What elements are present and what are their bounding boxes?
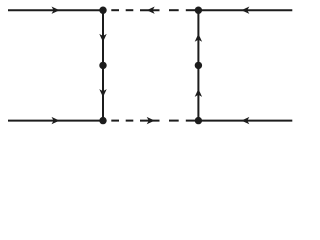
arrow bottom-left pointing right — [52, 117, 60, 124]
wire bottom-left fermion line — [8, 120, 103, 122]
wire right vertical fermion line upper segment — [197, 10, 199, 65]
arrow top-right pointing left — [241, 7, 249, 14]
node vertex top-right — [195, 7, 202, 14]
wire bottom-right fermion line — [198, 120, 292, 122]
wire left vertical fermion line upper segment — [102, 10, 104, 65]
wire top-left fermion line — [8, 9, 103, 11]
wire top-right fermion line — [198, 9, 292, 11]
arrow top-middle pointing left — [147, 7, 155, 14]
wire left vertical fermion line lower segment — [102, 65, 104, 120]
arrow top-left pointing right — [52, 7, 60, 14]
node vertex middle-left — [99, 62, 106, 69]
arrow right-vertical lower pointing up — [195, 89, 202, 97]
arrow left-vertical lower pointing down — [99, 89, 106, 97]
node vertex middle-right — [195, 62, 202, 69]
node vertex top-left — [99, 7, 106, 14]
wire top dashed scalar propagator — [111, 9, 195, 11]
arrow bottom-right pointing left — [241, 117, 249, 124]
node vertex bottom-right — [195, 117, 202, 124]
node vertex bottom-left — [99, 117, 106, 124]
arrow left-vertical upper pointing down — [99, 34, 106, 42]
wire bottom dashed scalar propagator — [111, 120, 195, 122]
arrow right-vertical upper pointing up — [195, 34, 202, 42]
wire right vertical fermion line lower segment — [197, 65, 199, 120]
arrow bottom-middle pointing right — [147, 117, 155, 124]
